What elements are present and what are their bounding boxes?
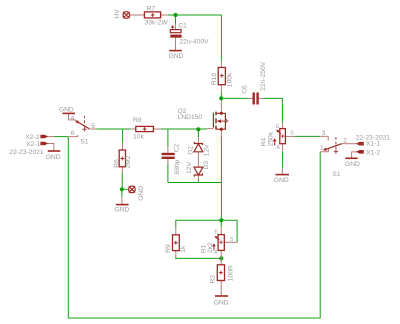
wire C2 top drop from gate line <box>167 129 169 147</box>
pin D3 bottom <box>197 176 199 179</box>
S1 right actuator dashes <box>335 137 337 150</box>
wire gnd node to GND pad <box>122 188 128 190</box>
capacitor C6 <box>253 93 259 105</box>
svg-text:4: 4 <box>71 115 75 122</box>
svg-text:5: 5 <box>91 123 95 130</box>
svg-text:LND150: LND150 <box>178 114 203 121</box>
R1 adjust arrow <box>213 245 215 251</box>
svg-text:R6: R6 <box>114 159 121 168</box>
wire drain node down to Q2 drain <box>220 98 222 101</box>
pin Q2 drain <box>220 101 222 114</box>
pin R9 bottom <box>175 251 177 257</box>
svg-text:A: A <box>214 250 218 256</box>
wire R4 bottom to GND <box>282 151 284 167</box>
R4 adjust arrow <box>274 140 276 146</box>
pin R8 right <box>153 128 160 130</box>
pin X2-1 to GND <box>47 144 54 152</box>
pin C6 right <box>259 97 264 99</box>
pin S1 left pin6 <box>68 135 78 137</box>
pin S1 left pin4 from GND <box>69 113 76 120</box>
S1 left arm arrowhead <box>75 120 79 123</box>
node lower divider junction <box>219 256 223 260</box>
svg-text:2: 2 <box>343 138 347 145</box>
connector pad X1-1 <box>357 142 363 145</box>
wire source rail horizontal y182.5 <box>168 182 222 184</box>
pin C2 top <box>167 147 169 153</box>
pin R6 bottom <box>121 167 123 173</box>
svg-text:GND: GND <box>274 177 289 184</box>
svg-text:R7: R7 <box>147 6 156 13</box>
svg-text:C6: C6 <box>241 85 248 94</box>
wire D3 bottom to source rail <box>197 179 199 183</box>
wire R10 bottom to drain node <box>220 92 222 98</box>
svg-text:100k: 100k <box>227 72 234 87</box>
pin S1 right pin2 to X1-1 <box>342 143 358 145</box>
pin HV pad to R7 <box>47 15 357 296</box>
R1 wiper diagonal arrow <box>216 237 219 240</box>
resistor R6 <box>119 150 125 167</box>
diode D2 zener <box>194 142 203 152</box>
svg-text:6: 6 <box>71 130 75 137</box>
ground under R6 node <box>116 204 129 206</box>
wire R1 wiper loop <box>221 220 237 242</box>
svg-text:S1: S1 <box>332 171 340 178</box>
Q2 drain dot <box>220 112 223 115</box>
connector pad X2-1 <box>41 142 47 145</box>
wire gate line from S1 pin5 to R8 <box>96 128 130 130</box>
R4 wiper diagonal arrow <box>278 131 281 134</box>
pin R4 wiper <box>285 135 294 137</box>
pin D2 anode to D3 anode <box>197 152 199 167</box>
pin D2 top <box>197 137 199 143</box>
S1 right arm arrowhead <box>323 148 327 151</box>
svg-text:22-23-2021: 22-23-2021 <box>356 134 390 141</box>
pin R4 top <box>282 123 284 128</box>
svg-text:22n-250V: 22n-250V <box>260 61 267 91</box>
svg-text:GND: GND <box>345 161 360 168</box>
wire left rail down, bottom rail, right rail up to S1 pin1 <box>68 137 320 318</box>
pin X2-2 <box>47 136 54 138</box>
pin S1 left pin5 <box>88 128 96 130</box>
svg-text:1: 1 <box>320 145 324 152</box>
pin R8 left <box>131 128 136 130</box>
ground under R2 <box>215 295 228 297</box>
wire C6 right to R4 top <box>264 98 283 123</box>
svg-text:X1-1: X1-1 <box>366 141 380 148</box>
resistor R2 <box>217 265 224 281</box>
pin C1 top <box>175 24 177 30</box>
S1 left actuator dashes <box>84 116 86 128</box>
pin Q2 gate <box>207 128 214 130</box>
switch S1 right <box>326 144 342 150</box>
svg-text:R9: R9 <box>165 244 172 253</box>
wire C1 top <box>175 15 177 24</box>
svg-text:33k-2W: 33k-2W <box>145 20 169 27</box>
pin R2 top <box>220 258 222 264</box>
ground under C1 <box>169 50 182 52</box>
capacitor C2 <box>162 153 175 159</box>
diode D3 zener <box>194 167 203 177</box>
svg-text:A: A <box>276 145 280 151</box>
svg-text:22u-400V: 22u-400V <box>180 39 210 46</box>
S1 left origin cross <box>82 127 86 131</box>
svg-text:100R: 100R <box>227 265 234 281</box>
svg-text:R2: R2 <box>209 275 216 284</box>
potentiometer R1 <box>218 235 224 251</box>
wire divider node left to R9 top <box>176 220 222 227</box>
pin R1 wiper <box>224 241 237 243</box>
wire R8 to Q2 gate <box>161 128 207 130</box>
svg-text:GND: GND <box>138 186 145 201</box>
svg-text:E: E <box>214 229 218 235</box>
node gate line junction at D2 <box>196 127 200 131</box>
pin R9 top <box>175 228 177 235</box>
svg-text:680p: 680p <box>174 159 181 174</box>
Q2 bulk arrow head <box>217 119 222 123</box>
svg-text:S: S <box>290 131 294 137</box>
wire R4 wiper S to S1 pin3 <box>295 135 321 137</box>
pin R6 top <box>121 143 123 150</box>
svg-text:E: E <box>276 124 280 130</box>
wire R9 bottom to lower node <box>176 257 222 259</box>
svg-text:GND: GND <box>115 207 130 214</box>
svg-text:250k: 250k <box>267 131 274 146</box>
pin S1 right pin3 <box>320 136 328 140</box>
switch S1 left <box>78 122 90 129</box>
svg-text:12V: 12V <box>186 162 193 174</box>
svg-text:S1: S1 <box>80 139 88 146</box>
pad GND (wirepad with X) <box>129 186 135 192</box>
pin R4 bottom <box>282 144 284 152</box>
capacitor C1 <box>170 25 181 37</box>
Q2 origin cross <box>225 119 229 123</box>
svg-text:2M2: 2M2 <box>125 155 132 168</box>
wire D2 top drop <box>197 129 199 137</box>
wire divider node to R1 top <box>220 220 222 227</box>
pin GND symbol stem below R6 node <box>121 197 123 204</box>
svg-text:S: S <box>230 237 234 243</box>
pin R10 top <box>220 61 222 68</box>
svg-text:C2: C2 <box>174 143 181 152</box>
svg-text:R8: R8 <box>133 117 142 124</box>
svg-text:1k: 1k <box>180 245 187 253</box>
pin R2 bottom stem to GND <box>220 281 222 297</box>
svg-text:X2-1: X2-1 <box>26 141 40 148</box>
node drain junction <box>219 96 223 100</box>
pin R7 right <box>161 14 168 16</box>
Q2 source dot <box>220 128 223 131</box>
svg-text:HV: HV <box>114 9 121 19</box>
pin X1-2 to GND <box>352 152 358 158</box>
svg-text:GND: GND <box>59 106 74 113</box>
svg-text:R4: R4 <box>260 138 267 147</box>
potentiometer R4 <box>280 129 286 144</box>
pin R1 bottom <box>220 250 222 258</box>
ground under R4 <box>276 174 290 176</box>
resistor R7 <box>144 12 160 18</box>
resistor R8 <box>136 126 154 131</box>
resistor R9 <box>173 235 180 251</box>
ground under X2-1 <box>48 150 61 152</box>
wire X2-2 to left rail <box>55 136 68 138</box>
pin C2 bottom <box>167 159 169 164</box>
svg-text:X1-2: X1-2 <box>366 149 380 156</box>
svg-text:C1: C1 <box>178 23 187 30</box>
connector pad X1-2 <box>357 151 363 154</box>
svg-text:GND: GND <box>214 300 229 307</box>
svg-text:22-23-2021: 22-23-2021 <box>9 149 43 156</box>
wire source net down to R1 node <box>220 183 222 221</box>
svg-text:12V: 12V <box>203 144 210 156</box>
ground under X1-2 <box>345 157 357 159</box>
pin S1 right pin1 <box>320 149 328 152</box>
pin R10 bottom <box>220 85 222 92</box>
wire R6 top drop from gate line <box>122 129 124 143</box>
svg-text:D3: D3 <box>203 161 210 170</box>
transistor Q2 LND150 <box>213 112 225 130</box>
R4 origin cross <box>281 134 285 138</box>
pin Q2 source <box>220 129 222 136</box>
svg-text:2k2: 2k2 <box>207 242 214 253</box>
svg-text:GND: GND <box>169 53 184 60</box>
R1 origin cross <box>219 240 223 244</box>
node HV junction at C1 <box>173 13 177 17</box>
pad HV (wirepad with X) <box>123 12 129 18</box>
node top divider junction <box>219 218 223 222</box>
svg-text:R10: R10 <box>211 73 218 86</box>
S1 right origin cross <box>334 149 338 153</box>
pin C6 left <box>248 97 253 99</box>
wire gnd node down to GND symbol <box>121 189 123 197</box>
svg-text:GND: GND <box>46 154 61 161</box>
wire C2 bottom to source rail <box>167 164 169 183</box>
pin R1 top <box>220 227 222 234</box>
wire Q2 source down <box>220 136 222 182</box>
resistor R10 <box>218 68 225 85</box>
node R6 gnd junction <box>120 187 124 191</box>
pin R4 gnd stem <box>281 167 283 174</box>
svg-text:3: 3 <box>322 130 326 137</box>
connector pad X2-2 <box>41 135 47 138</box>
pin C1 bottom stem to GND <box>175 38 177 51</box>
wire HV net: R7 to junction to R10 top <box>168 15 221 61</box>
svg-text:10k: 10k <box>133 133 144 140</box>
wire drain node to C6 left <box>223 97 247 99</box>
wire R6 bottom to GND node <box>121 173 123 190</box>
svg-text:D2: D2 <box>188 146 195 155</box>
